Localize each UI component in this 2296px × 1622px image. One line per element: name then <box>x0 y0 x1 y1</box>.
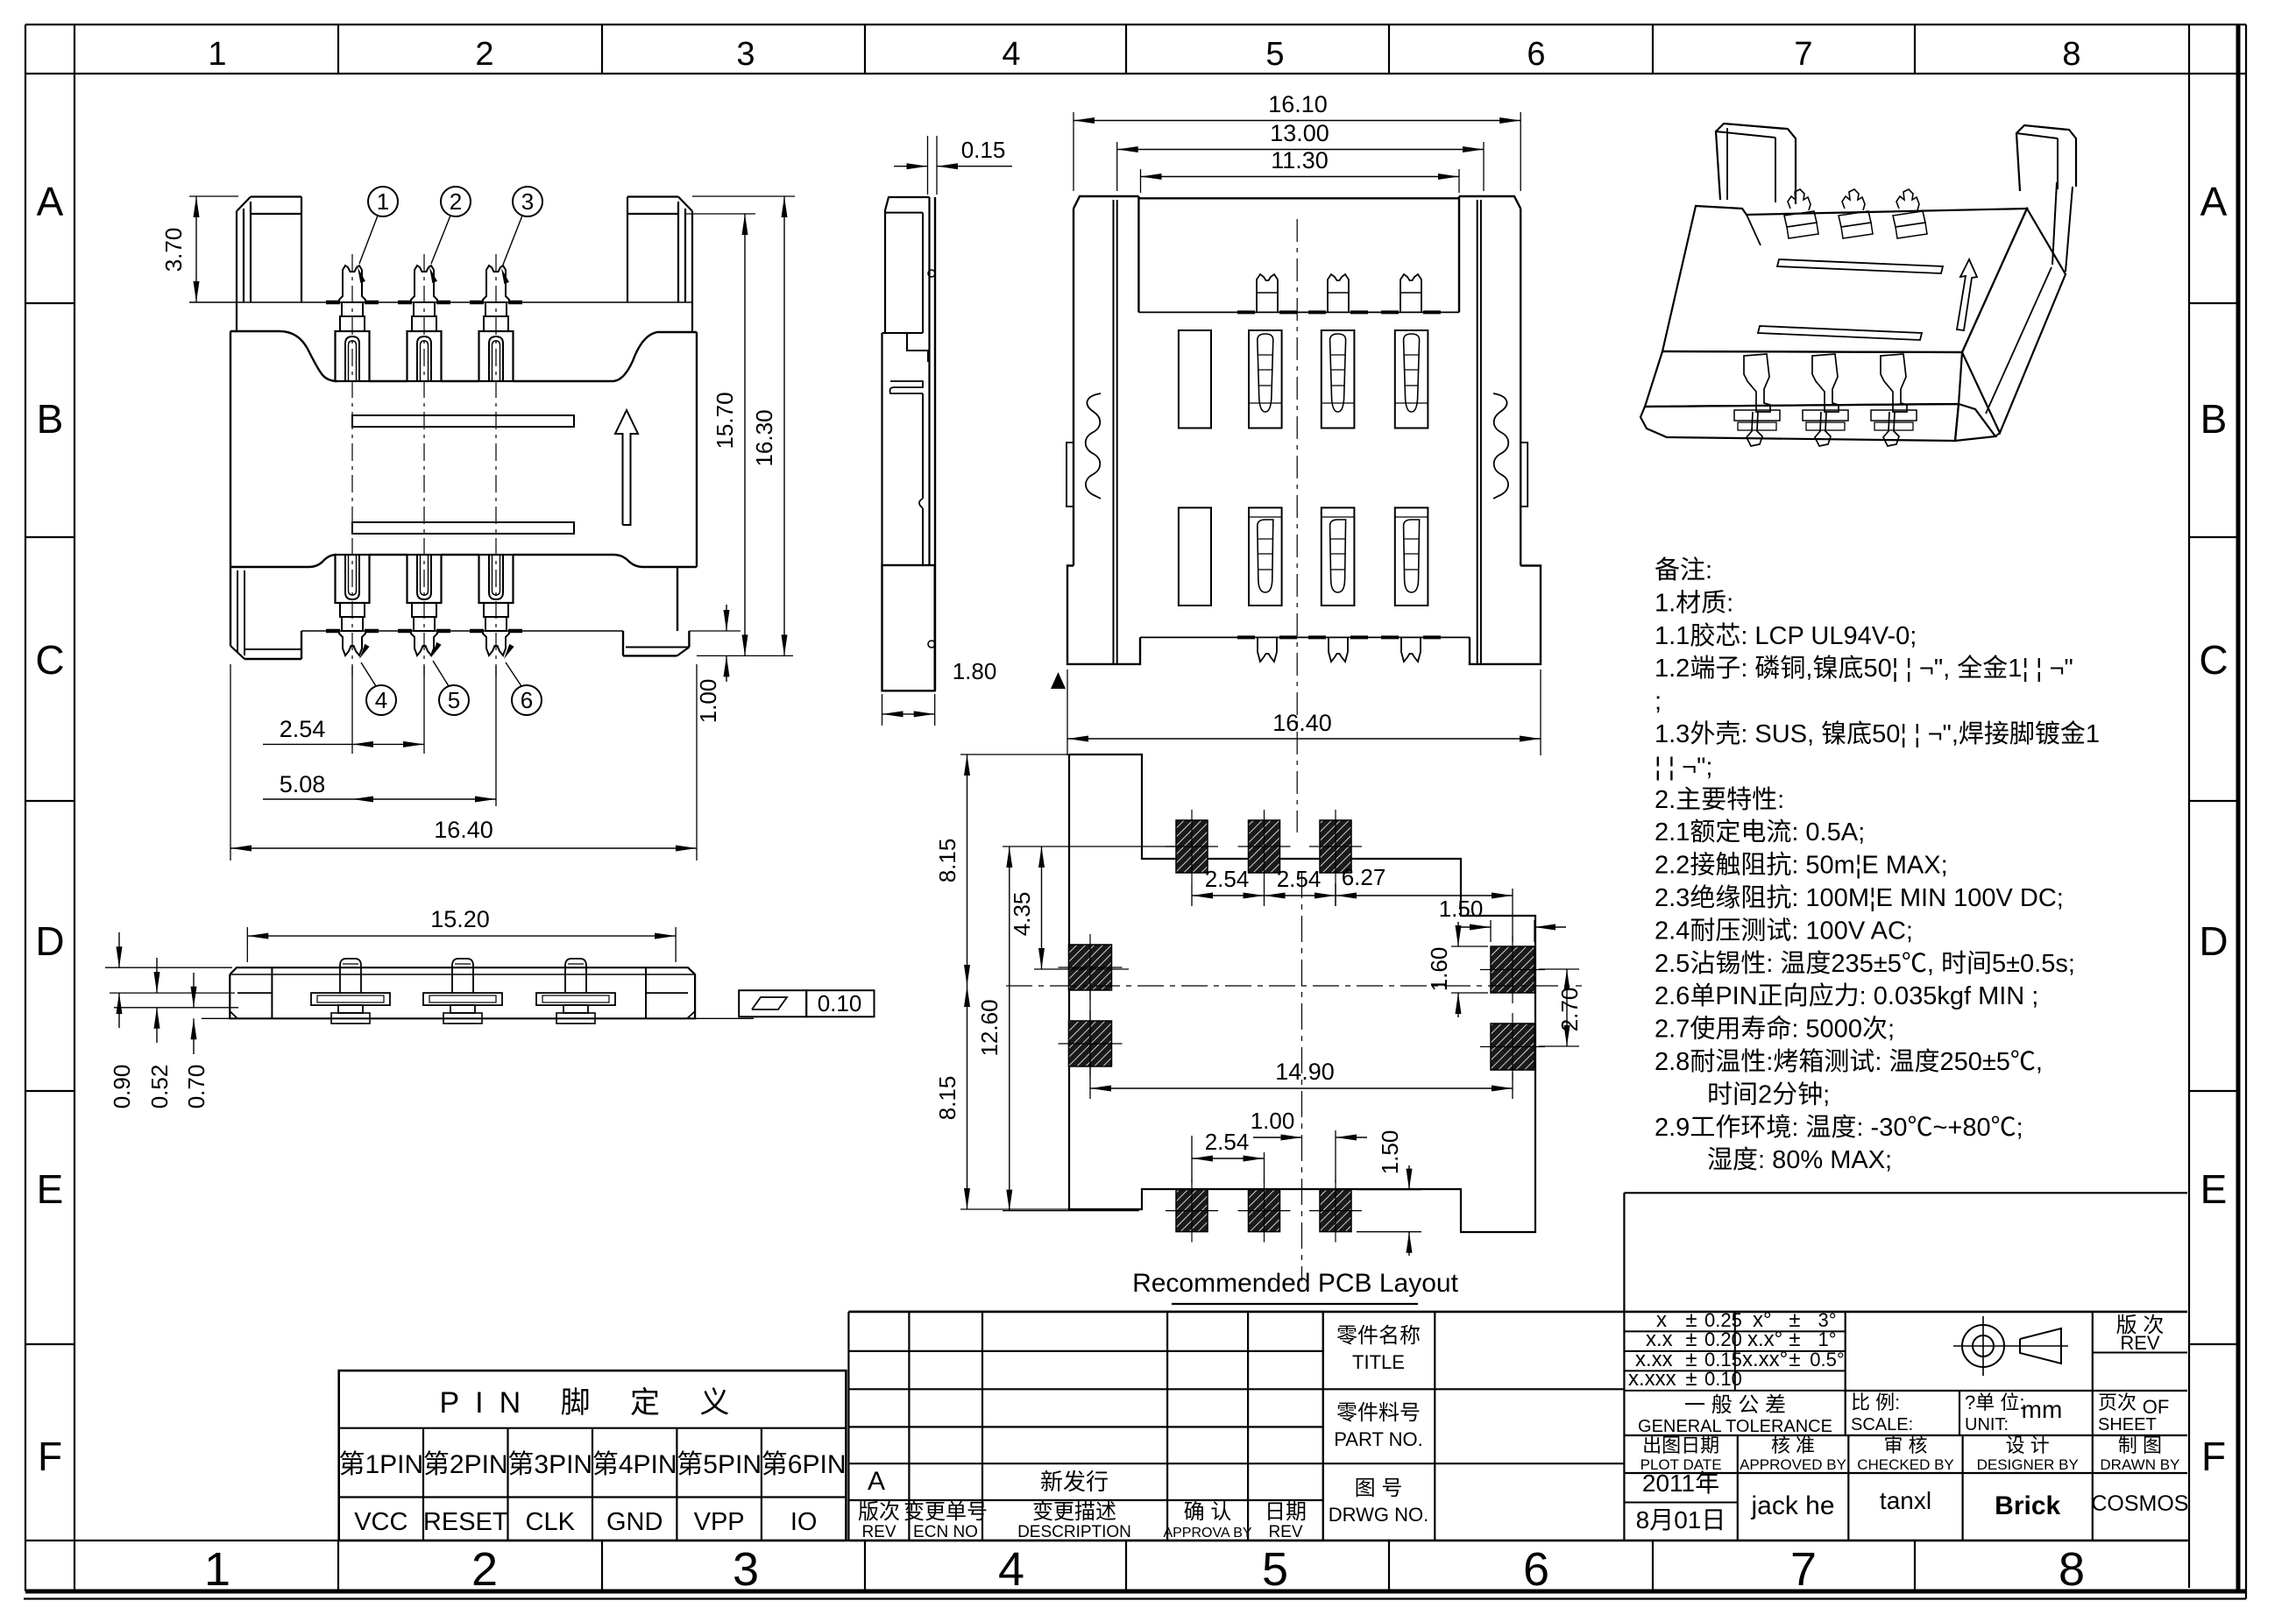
svg-text:tanxl: tanxl <box>1880 1487 1931 1514</box>
svg-text:2.2接触阻抗: 50m¦E MAX;: 2.2接触阻抗: 50m¦E MAX; <box>1655 851 1948 880</box>
svg-text:一 般 公 差: 一 般 公 差 <box>1684 1393 1786 1417</box>
top view: upper recess seat <box>1138 311 1459 313</box>
svg-text:1: 1 <box>204 1543 230 1596</box>
svg-text:2: 2 <box>471 1543 498 1596</box>
front view: balloon 4 <box>366 685 396 715</box>
svg-text:审 核: 审 核 <box>1883 1434 1927 1456</box>
isometric view: card slot slit 1 <box>1777 259 1943 273</box>
profile view: left cap <box>271 967 273 1018</box>
svg-text:1.60: 1.60 <box>1426 947 1452 992</box>
svg-text:PIN 脚 定 义: PIN 脚 定 义 <box>439 1386 745 1420</box>
dimension 6.27 <box>1335 883 1336 906</box>
top view: vertical centerline <box>1296 219 1298 832</box>
dimension 0.90 <box>105 967 232 968</box>
svg-text:页次: 页次 <box>2098 1392 2137 1413</box>
front view: bottom-left shell ear <box>230 567 231 646</box>
svg-text:时间2分钟;: 时间2分钟; <box>1707 1080 1830 1108</box>
svg-text:SHEET: SHEET <box>2098 1415 2157 1434</box>
isometric view: cover front band <box>1645 351 1962 407</box>
svg-text:0.5°: 0.5° <box>1810 1349 1844 1371</box>
svg-text:CHECKED BY: CHECKED BY <box>1857 1456 1954 1473</box>
isometric view: base bottom-right corner tab <box>1955 404 1995 441</box>
front view: bottom contact pin at x=566 <box>479 555 514 603</box>
svg-text:DRAWN BY: DRAWN BY <box>2100 1456 2179 1473</box>
svg-text:B: B <box>37 396 64 442</box>
front view: card direction arrow <box>615 410 638 525</box>
svg-text:16.10: 16.10 <box>1268 91 1328 117</box>
dimension 16.10 <box>1073 112 1074 191</box>
front view: top seat line <box>189 301 692 303</box>
title block: label column <box>1322 1312 1324 1541</box>
svg-text:设 计: 设 计 <box>2006 1434 2050 1456</box>
svg-text:DESCRIPTION: DESCRIPTION <box>1017 1523 1131 1541</box>
datum triangle marker <box>1051 672 1066 689</box>
front view: balloon 5 <box>439 685 469 715</box>
svg-text:4: 4 <box>375 687 387 713</box>
svg-text:SCALE:: SCALE: <box>1851 1415 1913 1434</box>
svg-text:GENERAL TOLERANCE: GENERAL TOLERANCE <box>1638 1417 1832 1436</box>
svg-text:REV: REV <box>2120 1332 2160 1354</box>
svg-text:第1PIN: 第1PIN <box>338 1450 423 1479</box>
top view: contact spring windows row1 <box>1249 330 1282 429</box>
dimension 16.40 (front) <box>230 664 231 861</box>
svg-text:TITLE: TITLE <box>1352 1351 1405 1373</box>
svg-text:0.15: 0.15 <box>961 137 1006 163</box>
front view: pin centerlines <box>351 254 353 676</box>
front view: slot bar upper <box>352 415 574 427</box>
svg-text:RESET: RESET <box>423 1508 508 1536</box>
svg-text:4.35: 4.35 <box>1009 892 1035 937</box>
svg-text:0.10: 0.10 <box>818 990 862 1016</box>
svg-text:3: 3 <box>521 188 534 215</box>
svg-text:2.主要特性:: 2.主要特性: <box>1655 785 1784 814</box>
svg-text:比 例:: 比 例: <box>1851 1392 1900 1413</box>
dimension 8.15 upper <box>960 754 1074 755</box>
svg-text:VPP: VPP <box>694 1508 745 1536</box>
svg-text:8: 8 <box>2062 36 2080 73</box>
svg-text:5: 5 <box>1262 1543 1288 1596</box>
side view: shell right wall <box>928 197 930 565</box>
dimension 2.54 (pcb bottom) <box>1191 1136 1193 1183</box>
svg-text:DESIGNER BY: DESIGNER BY <box>1977 1456 2079 1473</box>
dimension 0.15 <box>927 136 929 195</box>
dimension 16.40 (top view) <box>1067 669 1068 755</box>
svg-text:2: 2 <box>475 36 493 73</box>
front view: bottom seat line <box>301 630 623 632</box>
svg-text:DRWG NO.: DRWG NO. <box>1329 1504 1428 1526</box>
svg-text:6: 6 <box>1523 1543 1549 1596</box>
dimension 4.35 <box>1034 968 1129 970</box>
dimension 12.60 <box>1003 846 1185 847</box>
svg-text:VCC: VCC <box>354 1508 407 1536</box>
front view: top-right shell ear <box>691 211 693 331</box>
dimension 14.90 <box>1089 990 1091 1099</box>
svg-text:UNIT:: UNIT: <box>1965 1415 2009 1434</box>
dimension 2.54 (front) <box>351 666 353 754</box>
isometric view: right shell ear <box>2016 125 2076 191</box>
svg-text:第6PIN: 第6PIN <box>762 1450 847 1479</box>
svg-text:制 图: 制 图 <box>2118 1434 2162 1456</box>
svg-text:2.4耐压测试: 100V AC;: 2.4耐压测试: 100V AC; <box>1655 916 1913 945</box>
svg-text:5: 5 <box>448 687 460 713</box>
svg-text:C: C <box>2199 637 2228 683</box>
isometric view: base pad windows <box>1734 410 1780 421</box>
svg-text:Brick: Brick <box>1995 1491 2060 1520</box>
title block: big empty box <box>1624 1192 2187 1193</box>
svg-text:1.材质:: 1.材质: <box>1655 588 1733 617</box>
dimension 15.70 <box>685 213 755 215</box>
projection symbols <box>1962 1325 2004 1367</box>
svg-text:零件名称: 零件名称 <box>1336 1324 1421 1348</box>
revision table <box>847 1312 849 1541</box>
svg-text:版次: 版次 <box>858 1500 900 1524</box>
svg-text:7: 7 <box>1794 36 1812 73</box>
front view: top contact pin at x=484 <box>411 266 437 302</box>
svg-text:3: 3 <box>736 36 755 73</box>
svg-text:2.7使用寿命: 5000次;: 2.7使用寿命: 5000次; <box>1655 1015 1895 1044</box>
svg-text:2: 2 <box>450 188 462 215</box>
dimension 13.00 <box>1116 142 1118 191</box>
svg-text:16.30: 16.30 <box>751 409 777 466</box>
sheet border frame <box>25 24 2246 25</box>
svg-text:2.54: 2.54 <box>1205 1129 1250 1155</box>
pin definition table <box>339 1371 847 1541</box>
svg-text:2.54: 2.54 <box>280 716 326 742</box>
isometric view: card slot slit 2 <box>1758 326 1922 340</box>
svg-text:±: ± <box>1789 1348 1800 1371</box>
svg-text:0.70: 0.70 <box>183 1065 209 1109</box>
dimension 0.52 <box>110 992 235 994</box>
svg-text:2.6单PIN正向应力: 0.035kgf MIN ;: 2.6单PIN正向应力: 0.035kgf MIN ; <box>1655 981 2038 1010</box>
general tolerance row <box>1624 1434 2187 1436</box>
top view: left ear column <box>1074 196 1138 209</box>
svg-text:REV: REV <box>1268 1523 1302 1541</box>
svg-text:第4PIN: 第4PIN <box>592 1450 677 1479</box>
svg-text:6: 6 <box>521 687 533 713</box>
svg-text:1: 1 <box>208 36 226 73</box>
svg-text:2.3绝缘阻抗: 100M¦E MIN 100V DC;: 2.3绝缘阻抗: 100M¦E MIN 100V DC; <box>1655 883 2064 912</box>
svg-text:C: C <box>35 637 64 683</box>
svg-text:IO: IO <box>790 1508 818 1536</box>
front view: bottom contact pin at x=402 <box>336 555 370 603</box>
svg-text:零件料号: 零件料号 <box>1336 1401 1421 1425</box>
front view: top contact pin at x=566 <box>483 266 509 302</box>
isometric view: left shell ear <box>1716 124 1796 204</box>
svg-text:x.xx°: x.xx° <box>1742 1348 1788 1371</box>
front view: body outline <box>230 331 337 381</box>
svg-text:第5PIN: 第5PIN <box>677 1450 762 1479</box>
svg-text:12.60: 12.60 <box>976 999 1003 1056</box>
isometric view: top edge contacts <box>1788 189 1811 210</box>
svg-text:3: 3 <box>733 1543 759 1596</box>
svg-text:日期: 日期 <box>1265 1500 1307 1524</box>
svg-text:B: B <box>2200 396 2228 442</box>
top view: left blind windows <box>1179 330 1211 429</box>
svg-text:2.1额定电流: 0.5A;: 2.1额定电流: 0.5A; <box>1655 818 1865 846</box>
svg-text:变更单号: 变更单号 <box>904 1500 988 1524</box>
svg-text:5.08: 5.08 <box>280 771 326 797</box>
svg-text:2.8耐温性:烤箱测试: 温度250±5℃,: 2.8耐温性:烤箱测试: 温度250±5℃, <box>1655 1047 2043 1076</box>
dimension 2.70 <box>1539 968 1579 970</box>
svg-text:备注:: 备注: <box>1655 556 1712 584</box>
svg-text:2.54: 2.54 <box>1277 866 1322 892</box>
dimension 15.20 <box>246 927 248 962</box>
svg-text:2.5沾锡性: 温度235±5℃, 时间5±0.5s;: 2.5沾锡性: 温度235±5℃, 时间5±0.5s; <box>1655 949 2075 978</box>
svg-text:6.27: 6.27 <box>1342 864 1386 890</box>
svg-text:8: 8 <box>2059 1543 2085 1596</box>
svg-text:1.00: 1.00 <box>695 679 721 724</box>
side view: middle body <box>881 333 882 565</box>
dimension 8.15 lower <box>960 1208 1074 1210</box>
profile view: seat line <box>202 1017 754 1019</box>
svg-text:14.90: 14.90 <box>1275 1059 1335 1085</box>
front view: balloon 2 <box>441 187 471 216</box>
svg-text:0.20: 0.20 <box>1704 1328 1742 1350</box>
svg-text:16.40: 16.40 <box>434 817 493 843</box>
front view: bottom contact pin at x=484 <box>407 555 442 603</box>
isometric view: right end wall band <box>1962 209 2066 433</box>
dimension 1.50 (pcb bottom right) <box>1357 1189 1421 1191</box>
svg-text:x.xxx: x.xxx <box>1628 1367 1676 1391</box>
svg-text:8.15: 8.15 <box>934 1076 960 1121</box>
svg-text:F: F <box>38 1434 62 1479</box>
dimension 11.30 <box>1140 169 1142 193</box>
svg-text:?单 位:: ?单 位: <box>1965 1392 2024 1413</box>
front view: bottom-right shell ear <box>622 631 624 655</box>
tolerance table <box>1624 1330 1845 1332</box>
svg-text:1.50: 1.50 <box>1377 1130 1403 1175</box>
svg-text:16.40: 16.40 <box>1272 710 1332 736</box>
front view: top-left shell ear <box>236 211 237 331</box>
svg-text:湿度: 80% MAX;: 湿度: 80% MAX; <box>1707 1145 1892 1174</box>
pcb layout: outline <box>1069 754 1535 1232</box>
svg-text:D: D <box>35 918 64 964</box>
front view: balloon 1 <box>368 187 398 216</box>
isometric view: base front band <box>1641 404 1959 441</box>
svg-text:CLK: CLK <box>526 1508 576 1536</box>
svg-text:变更描述: 变更描述 <box>1032 1500 1116 1524</box>
svg-text:第2PIN: 第2PIN <box>423 1450 508 1479</box>
svg-text:1.00: 1.00 <box>1251 1108 1295 1134</box>
svg-text:1.3外壳: SUS, 镍底50¦ ¦ ¬",焊接脚镀金1: 1.3外壳: SUS, 镍底50¦ ¦ ¬",焊接脚镀金1 <box>1655 719 2100 748</box>
svg-text:2.54: 2.54 <box>1205 866 1250 892</box>
svg-text:6: 6 <box>1527 36 1545 73</box>
svg-text:确 认: 确 认 <box>1184 1500 1232 1524</box>
svg-text:8月01日: 8月01日 <box>1636 1506 1726 1533</box>
svg-text:ECN NO: ECN NO <box>913 1523 978 1541</box>
svg-text:15.20: 15.20 <box>430 906 490 932</box>
svg-text:APPROVED BY: APPROVED BY <box>1740 1456 1846 1473</box>
signature values <box>1624 1502 1737 1504</box>
profile view: smt contacts <box>340 959 361 993</box>
rev cell <box>2093 1352 2187 1354</box>
top view: central top edge <box>1138 197 1459 199</box>
svg-text:PART NO.: PART NO. <box>1334 1428 1422 1450</box>
svg-text:图 号: 图 号 <box>1355 1477 1403 1500</box>
isometric view: cover top face <box>1662 206 2027 352</box>
svg-text:1.50: 1.50 <box>1439 896 1484 922</box>
svg-text:REV: REV <box>861 1523 896 1541</box>
svg-text:A: A <box>868 1467 885 1496</box>
svg-text:Recommended PCB Layout: Recommended PCB Layout <box>1132 1269 1459 1298</box>
svg-text:1°: 1° <box>1818 1328 1836 1350</box>
zone dividers <box>337 25 339 74</box>
front view: slot bar lower <box>352 522 574 534</box>
svg-text:E: E <box>37 1166 64 1212</box>
svg-text:5: 5 <box>1265 36 1284 73</box>
svg-text:第3PIN: 第3PIN <box>507 1450 592 1479</box>
side view: top cap <box>885 197 930 210</box>
svg-text:D: D <box>2199 918 2228 964</box>
profile view: body bar <box>230 967 695 1018</box>
svg-text:1: 1 <box>377 188 389 215</box>
svg-text:4: 4 <box>1002 36 1020 73</box>
svg-text:APPROVA BY: APPROVA BY <box>1163 1526 1251 1541</box>
svg-text:jack he: jack he <box>1750 1491 1834 1520</box>
front view: body bottom edges <box>230 566 308 568</box>
svg-text:2.9工作环境: 温度: -30℃~+80℃;: 2.9工作环境: 温度: -30℃~+80℃; <box>1655 1113 2023 1142</box>
svg-text:mm: mm <box>2022 1396 2063 1423</box>
svg-text:核 准: 核 准 <box>1771 1434 1815 1456</box>
top view: lower corner tabs <box>1067 566 1140 664</box>
svg-text:GND: GND <box>606 1508 663 1536</box>
front view: top contact pin at x=402 <box>339 266 365 302</box>
dimension 1.00 (pcb) <box>1335 1130 1336 1183</box>
svg-text:1.2端子: 磷铜,镍底50¦ ¦ ¬", 全金1¦ ¦ ¬: 1.2端子: 磷铜,镍底50¦ ¦ ¬", 全金1¦ ¦ ¬" <box>1655 654 2073 683</box>
svg-text:2011年: 2011年 <box>1642 1470 1719 1497</box>
svg-text:1.80: 1.80 <box>953 658 997 684</box>
dimension 0.70 <box>114 1007 238 1009</box>
svg-text:;: ; <box>1655 688 1662 716</box>
profile view: right cap <box>645 967 647 1018</box>
svg-text:4: 4 <box>998 1543 1024 1596</box>
flatness tolerance box 0.10 <box>739 990 806 1016</box>
svg-text:15.70: 15.70 <box>712 392 738 449</box>
svg-text:出图日期: 出图日期 <box>1642 1434 1719 1456</box>
scale unit sheet cells <box>1846 1390 2187 1392</box>
dimension 1.80 <box>882 694 883 726</box>
top view: right side latch spring <box>1493 393 1508 499</box>
svg-text:E: E <box>2200 1166 2228 1212</box>
dimension 1.60 <box>1451 946 1488 947</box>
top view: bottom contact tips <box>1258 637 1277 662</box>
signature headers <box>1624 1472 2187 1474</box>
svg-text:2.70: 2.70 <box>1556 988 1583 1032</box>
front view: balloon 6 <box>512 685 542 715</box>
svg-text:0.52: 0.52 <box>146 1065 173 1109</box>
dimension 1.50 (pcb right top) <box>1490 920 1492 942</box>
top view: central bottom edge <box>1140 636 1470 638</box>
svg-text:±: ± <box>1685 1367 1697 1391</box>
svg-text:1.1胶芯: LCP UL94V-0;: 1.1胶芯: LCP UL94V-0; <box>1655 621 1917 650</box>
svg-text:A: A <box>37 179 64 224</box>
svg-text:13.00: 13.00 <box>1270 120 1329 146</box>
dimension 16.30 <box>692 195 795 197</box>
isometric view: arrow on cover <box>1957 259 1977 330</box>
svg-text:0.90: 0.90 <box>109 1065 135 1109</box>
svg-text:11.30: 11.30 <box>1271 147 1329 174</box>
top view: upper contact tips <box>1257 274 1278 312</box>
top view: left side latch spring <box>1086 393 1101 499</box>
isometric view: front contact springs <box>1744 354 1770 412</box>
dimension 1.00 (front) <box>726 605 727 631</box>
svg-text:¦ ¦ ¬";: ¦ ¦ ¬"; <box>1655 753 1712 781</box>
svg-text:A: A <box>2200 179 2228 224</box>
svg-text:新发行: 新发行 <box>1040 1469 1109 1495</box>
top view: right ear column <box>1459 196 1520 209</box>
svg-text:COSMOS: COSMOS <box>2091 1491 2188 1516</box>
svg-text:3.70: 3.70 <box>160 228 187 273</box>
svg-text:0.10: 0.10 <box>1704 1368 1742 1390</box>
svg-text:F: F <box>2201 1434 2226 1479</box>
front view: balloon 3 <box>513 187 542 216</box>
svg-text:7: 7 <box>1790 1543 1817 1596</box>
dimension 2.54 2.54 (pcb top) <box>1191 883 1193 906</box>
dimension 3.70 <box>189 195 238 197</box>
side view: base block <box>882 565 935 691</box>
svg-text:8.15: 8.15 <box>934 839 960 883</box>
top view: contact spring windows row2 <box>1249 507 1282 606</box>
dimension 5.08 <box>495 666 497 806</box>
pcb layout: centerlines <box>1006 985 1582 987</box>
